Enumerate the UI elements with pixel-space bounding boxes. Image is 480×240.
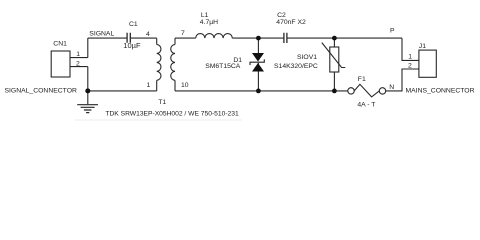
diode D1 TVS triangles	[252, 53, 264, 72]
svg-text:1: 1	[408, 53, 412, 60]
svg-text:TDK SRW13EP-X05H002 / WE 750-5: TDK SRW13EP-X05H002 / WE 750-510-231	[105, 110, 239, 117]
svg-text:10: 10	[181, 82, 189, 89]
wire T1 pin 10 lead	[174, 80, 176, 91]
svg-text:4: 4	[146, 31, 150, 38]
svg-text:4A - T: 4A - T	[357, 102, 375, 109]
wire T1 pin 4 lead	[156, 38, 158, 44]
node ground junction	[85, 88, 90, 93]
svg-text:T1: T1	[158, 99, 166, 106]
wire SIGNAL rail	[88, 37, 127, 39]
wire D1 bottom lead	[257, 63, 259, 91]
svg-text:4.7µH: 4.7µH	[200, 19, 218, 26]
svg-text:S14K320/EPC: S14K320/EPC	[274, 63, 318, 70]
ground	[77, 105, 98, 113]
fuse F1	[348, 88, 354, 94]
wire T1 pin 7 lead	[174, 38, 176, 44]
node SIOV1 bottom	[332, 89, 337, 94]
svg-text:CN1: CN1	[53, 41, 67, 48]
wire P corner to J1 pin 1	[402, 38, 419, 60]
diode D1 TVS bars	[250, 59, 264, 65]
wire C2 to P corner	[287, 37, 402, 39]
capacitor C1	[127, 33, 130, 43]
svg-text:SIGNAL_CONNECTOR: SIGNAL_CONNECTOR	[5, 87, 77, 94]
svg-text:MAINS_CONNECTOR: MAINS_CONNECTOR	[406, 87, 475, 94]
node D1 bottom	[256, 89, 261, 94]
varistor SIOV1 body	[330, 47, 339, 72]
inductor L1	[196, 34, 233, 39]
faint separator line	[75, 119, 242, 121]
wire SIOV1 top lead	[333, 38, 335, 47]
svg-text:SM6T15CA: SM6T15CA	[205, 63, 241, 70]
transformer T1 secondary winding	[171, 45, 175, 81]
connector J1	[419, 50, 436, 77]
wire D1 top lead	[257, 38, 259, 53]
svg-text:470nF X2: 470nF X2	[276, 19, 306, 26]
svg-text:1: 1	[147, 82, 151, 89]
capacitor C2	[284, 33, 287, 43]
wire pin2 vertical down	[87, 67, 89, 91]
wire C1 to T1 pin 4	[130, 37, 156, 39]
svg-text:7: 7	[181, 30, 185, 37]
wire N to J1 pin 2	[386, 69, 419, 91]
wire T1 pin 1 to ground node	[88, 90, 157, 92]
node D1 top	[256, 36, 261, 41]
wire T1 pin 1 lead	[156, 80, 158, 91]
wire CN1 pin 1	[70, 57, 88, 59]
connector CN1	[51, 51, 70, 77]
svg-text:2: 2	[408, 63, 412, 70]
transformer T1 primary winding	[157, 45, 161, 81]
ground stem	[87, 91, 89, 104]
svg-text:SIOV1: SIOV1	[297, 54, 317, 61]
wire SIOV1 bottom lead	[333, 72, 335, 91]
svg-text:C2: C2	[277, 12, 286, 19]
svg-text:1: 1	[76, 51, 80, 58]
svg-text:SIGNAL: SIGNAL	[89, 30, 114, 37]
node SIOV1 top	[332, 36, 337, 41]
svg-text:C1: C1	[129, 21, 138, 28]
svg-text:N: N	[389, 84, 394, 91]
svg-text:10µF: 10µF	[123, 41, 141, 50]
svg-text:J1: J1	[419, 43, 426, 50]
wire T1 pin 7 to L1	[175, 37, 196, 39]
svg-text:P: P	[390, 27, 395, 34]
svg-text:F1: F1	[358, 76, 366, 83]
wire CN1 pin 2	[70, 66, 88, 68]
svg-text:2: 2	[76, 60, 80, 67]
wire L1 to C2	[232, 37, 283, 39]
varistor SIOV1 diagonal	[322, 43, 346, 68]
wire bottom rail	[175, 90, 348, 92]
wire pin1 vertical to SIGNAL rail	[87, 38, 89, 58]
